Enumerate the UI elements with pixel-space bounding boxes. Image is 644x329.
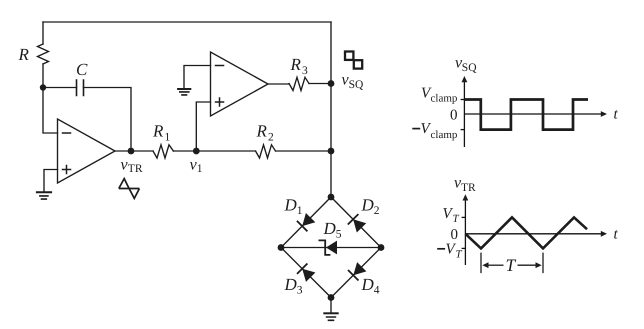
svg-text:1: 1 (197, 163, 203, 175)
svg-text:R: R (18, 45, 30, 64)
svg-text:D: D (284, 275, 298, 294)
vSQ plot tick -Vclamp (461, 129, 465, 131)
label -Vclamp (412, 128, 420, 130)
square wave icon (345, 52, 362, 69)
svg-text:R: R (152, 122, 164, 141)
period marker left bar (480, 253, 482, 274)
wire right vertical bus (330, 22, 332, 197)
vTR plot y-axis (464, 200, 466, 265)
svg-text:0: 0 (450, 108, 458, 124)
period marker left arrow (488, 264, 504, 266)
node vTR (128, 148, 135, 155)
resistor R1 (153, 145, 173, 158)
svg-text:TR: TR (461, 182, 476, 194)
vTR plot tick VT (462, 216, 466, 218)
wire U1 noninverting input to ground (44, 170, 58, 193)
diode D2 (348, 214, 366, 232)
node bridge right (378, 244, 385, 251)
node R2 junction (328, 148, 335, 155)
wire node to capacitor (43, 87, 77, 89)
svg-text:clamp: clamp (431, 93, 458, 105)
node bridge left (278, 244, 285, 251)
svg-text:D: D (323, 219, 337, 238)
svg-text:2: 2 (268, 132, 274, 144)
vTR plot tick -VT (462, 247, 466, 249)
svg-text:3: 3 (297, 285, 303, 297)
square waveform trace (464, 100, 588, 130)
wire R2 to right bus (276, 150, 332, 152)
U2 plus sign (216, 98, 224, 106)
svg-text:2: 2 (374, 205, 380, 217)
svg-text:SQ: SQ (349, 79, 364, 91)
resistor R (38, 44, 49, 64)
vSQ plot tick Vclamp (461, 99, 465, 101)
svg-text:3: 3 (302, 65, 308, 77)
svg-text:T: T (456, 249, 463, 261)
wire R to node (42, 64, 44, 88)
wire v1 to noninverting input U2 (196, 102, 210, 151)
ground U2 (178, 88, 190, 90)
capacitor C (77, 80, 84, 96)
svg-text:D: D (361, 196, 375, 215)
U1 plus sign (63, 166, 71, 174)
wire R3 to vSQ node (309, 83, 331, 85)
svg-text:TR: TR (128, 163, 143, 175)
label -VT (437, 248, 445, 250)
svg-text:1: 1 (297, 205, 303, 217)
wire node to inverting input U1 (43, 88, 58, 134)
zener diode D5 (319, 240, 338, 255)
node v1 (193, 148, 200, 155)
U2 minus sign (216, 65, 224, 67)
svg-text:clamp: clamp (431, 129, 458, 141)
resistor R2 (256, 145, 276, 158)
svg-text:R: R (290, 55, 302, 74)
wire bridge middle D5 branch (281, 247, 381, 249)
wire capacitor to vTR node (84, 88, 132, 152)
wire R1 to v1 node (173, 150, 255, 152)
ground U1 (37, 191, 51, 193)
svg-text:T: T (453, 213, 460, 225)
vTR plot x-axis (465, 233, 602, 235)
svg-text:t: t (614, 107, 619, 123)
svg-text:D: D (284, 196, 298, 215)
node vSQ (328, 80, 335, 87)
diode D4 (348, 262, 366, 280)
wire U1 output to R1 (115, 150, 153, 152)
resistor R3 (289, 77, 309, 90)
ground bridge (324, 312, 337, 314)
wire left vertical top (42, 22, 44, 44)
wire U2 inverting input to ground (184, 66, 211, 89)
diode D3 (297, 264, 315, 282)
wire top horizontal feedback (43, 21, 331, 23)
node R-C junction (40, 84, 46, 90)
op-amp U2 (211, 52, 269, 116)
node bridge top (328, 194, 335, 201)
svg-text:SQ: SQ (462, 62, 477, 74)
node bridge bottom (328, 294, 335, 301)
period marker right arrow (518, 264, 537, 266)
vSQ plot y-axis (463, 82, 465, 147)
svg-text:5: 5 (336, 229, 342, 241)
diode bridge frame wires (281, 197, 381, 298)
triangle wave icon (119, 179, 140, 199)
svg-text:1: 1 (165, 132, 171, 144)
U1 minus sign (63, 132, 71, 134)
svg-text:R: R (256, 122, 268, 141)
op-amp U1 (58, 119, 116, 183)
diode D1 (297, 213, 315, 231)
svg-text:t: t (614, 226, 619, 242)
svg-text:C: C (76, 60, 88, 79)
wire U2 output to R3 (268, 83, 289, 85)
svg-text:D: D (361, 275, 375, 294)
svg-text:4: 4 (374, 285, 380, 297)
period marker right bar (542, 253, 544, 274)
svg-text:T: T (506, 255, 517, 275)
triangle waveform trace (465, 217, 587, 248)
wire bridge bottom to ground (330, 298, 332, 314)
vSQ plot x-axis (464, 113, 602, 115)
